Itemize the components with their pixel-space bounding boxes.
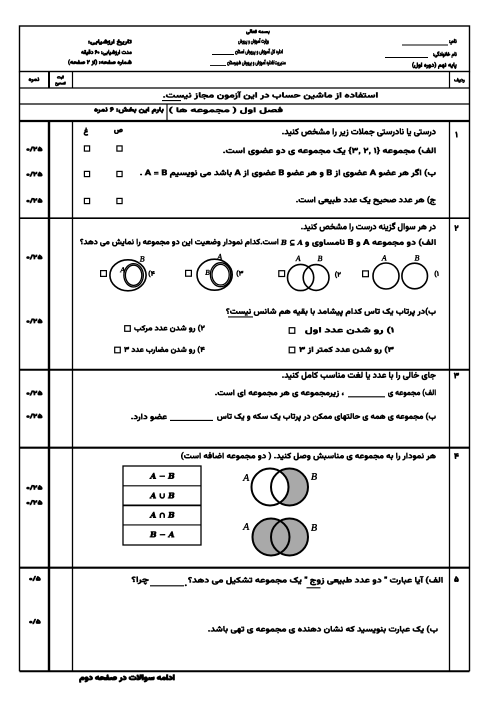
header box	[20, 26, 470, 72]
sign1	[57, 75, 64, 80]
q4 title	[181, 452, 436, 461]
score 0.25	[26, 413, 42, 418]
table bottom	[20, 670, 470, 672]
q2 o3 num	[236, 270, 243, 277]
q2 o3 B	[205, 270, 210, 275]
outer left border	[19, 72, 21, 672]
q2 b	[226, 307, 436, 316]
q2b opt4	[124, 346, 205, 354]
nomre	[29, 77, 40, 83]
duration	[81, 49, 132, 56]
q1 number	[455, 131, 457, 137]
q2 a seg2	[80, 238, 278, 247]
q4 lbl3	[149, 512, 174, 518]
date	[88, 39, 132, 46]
q1 title	[282, 128, 436, 137]
q5 a	[188, 576, 443, 586]
q3 a1	[388, 389, 436, 398]
q3 title	[282, 372, 436, 381]
barem	[94, 107, 164, 114]
bismillah	[246, 29, 270, 35]
q4 answer table	[123, 466, 201, 545]
family	[433, 51, 457, 58]
grade	[412, 62, 457, 69]
q2 o2 B	[317, 256, 322, 262]
q4 v1 B	[311, 473, 317, 480]
q2 o4 num	[148, 270, 155, 277]
q2 option1 venn: disjoint A B	[363, 271, 369, 277]
q2b opt1	[305, 326, 394, 334]
q1 checkbox sahih	[117, 171, 122, 176]
q5 underline zowj	[307, 587, 321, 589]
q2 o1 num	[434, 270, 438, 277]
name blank	[402, 44, 448, 46]
line under banner row	[20, 103, 470, 105]
q1 checkbox ghalat	[84, 171, 89, 176]
q2 a subset	[281, 240, 303, 246]
pages	[68, 59, 132, 66]
q5 b	[208, 625, 438, 634]
q5 blank	[150, 585, 184, 587]
q4 lbl1	[149, 473, 174, 479]
q1 checkbox sahih	[117, 198, 122, 203]
outer right border	[469, 72, 471, 672]
score 0.5	[29, 619, 41, 625]
blank line1	[212, 54, 234, 56]
q4 v1 A	[242, 474, 249, 481]
q1 ghalat	[84, 127, 89, 136]
score 0.25	[26, 485, 42, 490]
q2b underline nist	[228, 316, 253, 318]
sign2	[55, 82, 66, 87]
q2b opt2	[134, 324, 205, 332]
fasl row divider	[166, 104, 168, 121]
q2b opt3	[299, 346, 394, 354]
banner	[163, 91, 378, 100]
q2 option4 venn: A inside B	[101, 271, 107, 277]
name	[449, 39, 457, 45]
q2 o4 A	[120, 267, 125, 272]
score 0.25	[26, 198, 42, 203]
score 0.25	[26, 318, 42, 323]
q3 number	[454, 372, 460, 378]
q4 venn1: B-A shaded	[252, 469, 309, 506]
q5 period	[185, 584, 187, 586]
q1 checkbox ghalat	[84, 198, 89, 203]
radif header	[454, 78, 465, 83]
q2 o3 A	[217, 254, 223, 260]
q3 a2	[215, 389, 344, 397]
q5 number	[454, 576, 459, 582]
score 0.5	[29, 576, 41, 582]
line q2/q3	[20, 369, 470, 371]
q3 blank a	[348, 396, 385, 398]
q2 o2 num	[335, 271, 341, 278]
line under fasl row	[20, 120, 470, 122]
q3 b1	[217, 412, 436, 421]
q3 blank b	[170, 419, 213, 421]
score column divider	[48, 121, 50, 671]
q2 o4 B	[140, 256, 145, 262]
line under nomre row	[20, 87, 470, 89]
edu office	[235, 48, 283, 55]
q1 b	[140, 169, 436, 178]
score 0.25	[26, 500, 42, 505]
q2 option2 venn: overlapping A B	[279, 271, 285, 277]
q4 lbl4	[150, 531, 175, 537]
q2 title	[301, 222, 436, 232]
blank line2	[210, 65, 226, 67]
score 0.25	[26, 254, 42, 259]
q1 checkbox sahih	[117, 146, 122, 151]
q4 venn2: A union B shaded	[253, 519, 309, 556]
q1 sahih	[114, 129, 123, 134]
radif column divider	[449, 121, 451, 671]
banner underline	[162, 100, 181, 102]
ministry	[238, 38, 269, 45]
q4 v2 A	[242, 523, 249, 530]
score 0.25	[26, 390, 42, 395]
score 0.25	[26, 172, 42, 177]
q4 number	[454, 453, 459, 459]
fasl	[169, 107, 283, 115]
q2 o1 B	[414, 255, 419, 261]
q4 lbl2	[149, 492, 174, 498]
line q4/q5	[20, 567, 470, 569]
footer	[79, 674, 175, 683]
content left divider	[72, 121, 74, 671]
q2 o2 A	[295, 256, 301, 262]
line q1/q2	[20, 217, 470, 219]
q2 number	[454, 225, 458, 231]
q2 option3 venn: B inside A	[186, 270, 192, 276]
q1 checkbox ghalat	[84, 146, 89, 151]
q1 c	[296, 196, 436, 206]
q2 o1 A	[381, 255, 387, 261]
q4 v2 B	[311, 524, 317, 531]
q1 a	[223, 147, 436, 156]
q5 chera	[132, 576, 149, 585]
district	[227, 59, 286, 66]
family blank	[385, 57, 428, 59]
q3 b2	[131, 413, 167, 421]
score 0.25	[26, 146, 42, 151]
line q3/q4	[20, 447, 470, 449]
q2 a seg1	[305, 238, 436, 247]
